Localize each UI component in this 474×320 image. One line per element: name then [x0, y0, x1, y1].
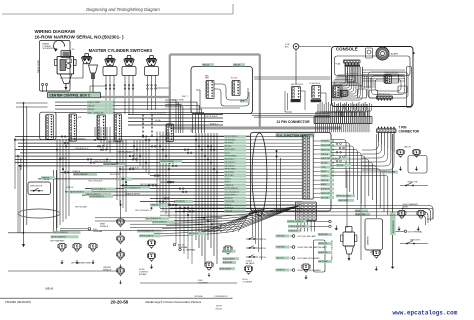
- latch solenoid L2: [414, 150, 419, 155]
- svg-text:T BROWN: T BROWN: [276, 236, 285, 238]
- white grommet chip: [381, 171, 398, 174]
- svg-text:www.epcatalogs.com: www.epcatalogs.com: [393, 310, 458, 317]
- svg-text:BLK: BLK: [191, 129, 193, 132]
- svg-text:WIRE: WIRE: [403, 207, 409, 209]
- left marker solenoid 1: [59, 244, 65, 249]
- svg-text:ORANGE-WHITE W: ORANGE-WHITE W: [69, 191, 85, 194]
- junction box bottom connector grid: [296, 202, 317, 221]
- svg-text:SWITCH B W: SWITCH B W: [30, 185, 42, 187]
- relay K1: [97, 115, 106, 139]
- svg-text:WHITE-PURPLE 2: WHITE-PURPLE 2: [225, 136, 238, 138]
- svg-text:WHITE-CREAM T: WHITE-CREAM T: [118, 150, 134, 153]
- svg-text:WHITE-GROMM: WHITE-GROMM: [382, 172, 396, 174]
- svg-text:CYLINDER: CYLINDER: [243, 282, 253, 284]
- svg-text:TURQUOISE: TURQUOISE: [225, 201, 234, 203]
- svg-text:091197: 091197: [216, 306, 222, 308]
- svg-text:ORANGE-WHITE: ORANGE-WHITE: [125, 193, 141, 196]
- master cylinder switch S4: [147, 58, 156, 60]
- svg-text:WHITE-GREEN W: WHITE-GREEN W: [225, 188, 239, 190]
- svg-text:MARKER: MARKER: [367, 236, 370, 245]
- chip RED-W top right: [233, 63, 245, 66]
- console module B: [358, 89, 367, 98]
- svg-text:WHITE-GREEN T: WHITE-GREEN T: [108, 142, 124, 144]
- svg-text:TEE BELT: TEE BELT: [318, 247, 328, 249]
- switch cross wires: [90, 86, 106, 92]
- svg-text:WHITE 2: WHITE 2: [225, 178, 232, 180]
- svg-text:VAC MONITOR: VAC MONITOR: [346, 73, 359, 76]
- tail lamp group: [276, 235, 290, 238]
- svg-text:RED-W: RED-W: [335, 159, 341, 161]
- vertical bundle D: [56, 139, 58, 228]
- svg-text:Diagnosing and Testing/Wiring: Diagnosing and Testing/Wiring Diagram: [86, 7, 160, 12]
- console enclosure: [332, 47, 414, 107]
- vertical bundle E: [116, 140, 118, 200]
- svg-text:SWITCH: SWITCH: [259, 239, 267, 241]
- booster chip strip: [390, 213, 396, 236]
- SMV module enclosure: [191, 67, 253, 114]
- svg-text:SWITCH: SWITCH: [259, 257, 267, 259]
- junction box cable loop: [252, 133, 267, 216]
- svg-text:BROWN: BROWN: [321, 162, 328, 164]
- footer rule: [0, 297, 233, 299]
- vertical bundle A: [94, 127, 96, 137]
- junction dots: [23, 139, 25, 141]
- svg-text:PLAN: PLAN: [336, 63, 341, 66]
- raise/lower solenoid enclosure: [40, 41, 71, 92]
- svg-text:WHITE-YEL 2: WHITE-YEL 2: [225, 159, 235, 161]
- svg-text:BROWN-W: BROWN-W: [321, 189, 330, 191]
- console riser wires: [361, 74, 363, 88]
- cyl solenoid 1: [149, 240, 155, 245]
- svg-text:MAIN MODULE: MAIN MODULE: [378, 93, 391, 96]
- chips mid cluster: [222, 250, 236, 253]
- switch B W box left: [28, 182, 51, 195]
- bottom band rows: [95, 217, 222, 219]
- right lamp chips column: [318, 233, 332, 236]
- svg-text:WHITE-GRAY W: WHITE-GRAY W: [140, 235, 154, 238]
- master cylinder switch S1: [82, 56, 91, 58]
- SMV routing loops: [214, 84, 248, 100]
- 21 pin connector leads: [315, 112, 317, 117]
- master cylinder switch S3: [125, 58, 134, 60]
- svg-text:RED-W: RED-W: [225, 152, 231, 154]
- left edge verticals: [14, 138, 16, 189]
- svg-text:PN=112: PN=112: [216, 308, 222, 310]
- right vertical wire: [392, 134, 394, 264]
- switch S1 funnel: [89, 65, 98, 73]
- left band chips: [41, 176, 55, 179]
- svg-text:WHITE: WHITE: [321, 171, 327, 173]
- svg-text:SOLENOID: SOLENOID: [43, 48, 55, 50]
- junction bottom verticals: [252, 211, 254, 236]
- vertical bundle B: [133, 140, 135, 160]
- svg-text:YELLOW-BLACK W: YELLOW-BLACK W: [138, 230, 154, 233]
- connector X2: [69, 114, 77, 141]
- svg-text:LEFT MARKER WIRE: LEFT MARKER WIRE: [71, 262, 91, 265]
- console drop wires: [316, 104, 338, 117]
- solenoid funnel: [60, 74, 72, 84]
- svg-text:RED-W: RED-W: [234, 64, 241, 66]
- svg-text:BRN-W: BRN-W: [88, 109, 95, 111]
- svg-text:SEED MODULE: SEED MODULE: [358, 87, 371, 89]
- alarm: [376, 47, 389, 60]
- solenoid terminals: [42, 83, 44, 85]
- right vertical wire 2: [375, 134, 377, 218]
- svg-text:WHITE-ORANGE 2: WHITE-ORANGE 2: [70, 137, 87, 140]
- console inner panel: [335, 56, 411, 76]
- switch rows right of cluster: [246, 238, 258, 240]
- console wire loops: [368, 72, 408, 98]
- junction box outline: [251, 132, 332, 211]
- svg-text:WHITE-PINK: WHITE-PINK: [225, 172, 235, 174]
- svg-text:TM1366AN: TM1366AN: [194, 295, 203, 298]
- center spindle column: [118, 219, 123, 224]
- svg-text:WHITE-GREEN W: WHITE-GREEN W: [53, 232, 68, 234]
- svg-text:BA: VALVE: BA: VALVE: [246, 262, 256, 265]
- svg-text:BLACK: BLACK: [321, 183, 327, 186]
- svg-text:RED-W: RED-W: [176, 104, 183, 106]
- svg-text:SCR TERMINAL: SCR TERMINAL: [408, 230, 424, 233]
- 7 PIN CONNECTOR pins: [378, 126, 380, 128]
- 7 pin leads: [378, 132, 380, 142]
- svg-text:LEFT LAMP: LEFT LAMP: [319, 260, 329, 263]
- purple chips: [287, 220, 307, 223]
- relay loop wires: [285, 91, 292, 112]
- junction box pin strip: [302, 135, 313, 199]
- svg-text:WIRING DIAGRAM: WIRING DIAGRAM: [35, 29, 75, 34]
- wire rows control box: [128, 114, 223, 116]
- solenoid valve V1: [61, 51, 71, 58]
- inline connector bullets: [61, 136, 63, 138]
- spindle feed wires: [120, 200, 122, 219]
- svg-text:WHITE-ORANGE T: WHITE-ORANGE T: [74, 173, 89, 176]
- switch S1 wires: [60, 64, 83, 79]
- svg-text:YELLOW-BLACK W: YELLOW-BLACK W: [125, 186, 141, 189]
- svg-text:10 GA: 10 GA: [155, 119, 161, 122]
- junction box right chips column: [321, 140, 335, 143]
- shut off solenoid valve: [343, 232, 355, 246]
- console small part c: [398, 86, 407, 93]
- svg-text:RAISE WIRE: RAISE WIRE: [37, 59, 40, 72]
- svg-text:WHT - BLACK WI: WHT - BLACK WI: [88, 111, 104, 114]
- svg-text:WHITE-YEL: WHITE-YEL: [321, 149, 330, 151]
- svg-text:BLACK-W: BLACK-W: [130, 167, 139, 170]
- svg-text:WHITE-BLUE 2: WHITE-BLUE 2: [225, 162, 236, 164]
- svg-text:TM1366 (06JAN97): TM1366 (06JAN97): [5, 300, 31, 304]
- B+ wire to console: [299, 46, 332, 48]
- svg-text:WHITE-B: WHITE-B: [321, 180, 329, 182]
- svg-text:SWITCH B: SWITCH B: [408, 182, 418, 184]
- svg-text:ORANGE-W: ORANGE-W: [151, 204, 161, 207]
- svg-text:TRANS CONTROL: TRANS CONTROL: [384, 71, 399, 74]
- svg-text:ALARM: ALARM: [391, 53, 398, 56]
- master cylinder switch S2: [106, 58, 115, 60]
- svg-text:RIGHT LAMP (W) FLASHER: RIGHT LAMP (W) FLASHER: [298, 269, 322, 272]
- right marker enclosure: [365, 219, 383, 250]
- svg-text:WHITE-ORANGE: WHITE-ORANGE: [161, 160, 175, 163]
- svg-text:PURPLE- GREEN W: PURPLE- GREEN W: [288, 221, 304, 223]
- solenoid return arrow: [54, 40, 65, 50]
- svg-text:LEFT LAMP (W) FLASHER: LEFT LAMP (W) FLASHER: [298, 257, 321, 260]
- right field chips: [336, 195, 355, 198]
- svg-text:PURPLE: PURPLE: [321, 176, 329, 178]
- scr terminal left: [88, 228, 91, 231]
- left wire arrow: [22, 244, 25, 247]
- wires console to 21pin: [335, 112, 337, 117]
- console small part b: [340, 90, 348, 96]
- bullet column pair A: [142, 115, 144, 117]
- right marker solenoid 3: [373, 250, 379, 255]
- svg-text:T BROWN: T BROWN: [276, 247, 285, 249]
- bottom long rows: [160, 206, 433, 220]
- svg-text:WHITE-GRAY: WHITE-GRAY: [75, 206, 88, 209]
- top bus horizontals: [254, 76, 331, 78]
- chip BLK: [240, 100, 248, 103]
- console cross wires: [362, 69, 405, 71]
- right band bullets: [336, 143, 338, 145]
- svg-text:WHITE-GREEN W: WHITE-GREEN W: [153, 222, 167, 224]
- left main black wire: [23, 103, 25, 233]
- svg-text:BLACK-WH: BLACK-WH: [223, 261, 233, 264]
- speed sensor: [366, 48, 373, 58]
- svg-text:YELLOW-BLACK: YELLOW-BLACK: [88, 180, 103, 183]
- connector X1: [40, 112, 56, 139]
- svg-text:YELLOW-BLACK W: YELLOW-BLACK W: [146, 217, 162, 220]
- bottom long rows 2: [8, 270, 121, 272]
- console connector J2: [377, 96, 393, 99]
- SMV module connector B: [232, 81, 240, 96]
- SMV module connector A: [206, 81, 214, 99]
- svg-text:BLK-W, BLACK W: BLK-W, BLACK W: [92, 188, 106, 191]
- shut off ground: [335, 226, 337, 229]
- 21 pin connector bar: [314, 117, 372, 124]
- vertical bundle F: [156, 132, 158, 206]
- svg-text:PL MODULE: PL MODULE: [310, 83, 321, 85]
- left marker solenoid 2: [74, 244, 80, 249]
- svg-text:YELLOW: YELLOW: [321, 197, 328, 199]
- console small part a: [347, 76, 355, 82]
- 7pin drop curves: [362, 132, 379, 150]
- svg-text:WHITE-GREEN W: WHITE-GREEN W: [95, 161, 111, 163]
- svg-text:BLACK-WH: BLACK-WH: [319, 233, 329, 236]
- svg-text:LATCH: LATCH: [404, 145, 411, 148]
- SMV drop bundle: [192, 114, 194, 134]
- svg-text:ORANGE: ORANGE: [72, 170, 81, 173]
- tee belt box: [314, 240, 326, 272]
- svg-text:BROWN-W: BROWN-W: [176, 201, 185, 203]
- svg-text:BRN-W: BRN-W: [60, 158, 67, 160]
- svg-text:WHITE-BLACK: WHITE-BLACK: [205, 115, 219, 118]
- relay module M1: [292, 87, 301, 100]
- svg-text:CENTER CONTROL BOX C: CENTER CONTROL BOX C: [50, 94, 91, 98]
- svg-text:CONSOLE: CONSOLE: [336, 47, 358, 52]
- svg-text:RED-W BLACK WI: RED-W BLACK WI: [150, 112, 166, 115]
- vertical bundle C: [195, 133, 197, 240]
- svg-text:WHITE-GRY: WHITE-GRY: [321, 193, 331, 195]
- stepped wires control box right: [165, 100, 176, 133]
- console drop bundle: [340, 67, 346, 84]
- svg-text:SWITCH: SWITCH: [259, 248, 267, 250]
- console inner border right: [407, 67, 412, 108]
- bus drop bundle: [317, 104, 319, 117]
- console connector J1: [344, 60, 361, 63]
- junction box left pin labels: [224, 135, 246, 138]
- svg-text:20-20-58: 20-20-58: [111, 300, 129, 305]
- junction bottom fan left: [178, 206, 299, 218]
- svg-text:WHITE-GREEN 1: WHITE-GREEN 1: [225, 156, 238, 158]
- junction box interior verticals: [276, 151, 278, 211]
- svg-text:WHT 2: WHT 2: [182, 96, 188, 98]
- svg-text:BLACK-WH: BLACK-WH: [319, 251, 329, 254]
- svg-text:BOOSTER W: BOOSTER W: [393, 221, 395, 233]
- svg-text:WHITE YEL: WHITE YEL: [319, 243, 328, 245]
- cable coil ellipse: [18, 209, 60, 218]
- svg-text:WHITE-A: WHITE-A: [321, 153, 329, 156]
- B+ wire down: [295, 49, 297, 84]
- svg-text:ROSTA W: ROSTA W: [321, 140, 329, 143]
- svg-text:RED-W: RED-W: [203, 64, 210, 66]
- connector X3: [114, 114, 122, 141]
- left marker solenoid 3: [90, 244, 96, 249]
- svg-text:LEFT (NO) TAIL LAMP: LEFT (NO) TAIL LAMP: [298, 235, 317, 238]
- bottom center solenoid: [303, 264, 309, 269]
- svg-text:WHITE-BRN 2: WHITE-BRN 2: [225, 165, 235, 167]
- relay module M2: [312, 86, 321, 99]
- page header rule: [2, 13, 233, 15]
- 21 pin drop wires: [315, 124, 317, 133]
- console module A: [384, 74, 399, 83]
- bottom diagonal fan: [238, 209, 252, 232]
- svg-text:BLACK 2: BLACK 2: [210, 123, 218, 126]
- svg-text:16-ROW NARROW SERIAL NO.(50230: 16-ROW NARROW SERIAL NO.(502301-: [35, 34, 122, 39]
- latch solenoid L1: [398, 150, 403, 155]
- cyl solenoid 2: [149, 253, 155, 258]
- svg-text:MASTER CYLINDER SWITCHES: MASTER CYLINDER SWITCHES: [89, 48, 153, 53]
- svg-text:CONNECTOR: CONNECTOR: [399, 129, 420, 133]
- svg-text:B+ TERMINAL: B+ TERMINAL: [183, 249, 195, 252]
- svg-text:YELLOW: YELLOW: [276, 258, 284, 260]
- svg-text:BROWN-W: BROWN-W: [225, 198, 234, 200]
- svg-text:WHITE-ORANGE T: WHITE-ORANGE T: [104, 163, 119, 166]
- CENTER CONTROL BOX title: [48, 92, 101, 98]
- svg-text:BLACK-WH: BLACK-WH: [356, 213, 366, 216]
- wire rows left field: [15, 136, 224, 138]
- junction dot bottom left: [23, 232, 25, 234]
- fold cylinder solenoid B: [246, 266, 252, 271]
- console fan wires: [338, 67, 345, 75]
- svg-text:GRAY-W: GRAY-W: [66, 186, 74, 189]
- console module C: [369, 90, 378, 98]
- right field staircase wires: [331, 140, 346, 189]
- svg-text:CONSERVATION: CONSERVATION: [214, 295, 228, 298]
- svg-text:BLACK-WHITE: BLACK-WHITE: [223, 257, 235, 260]
- left junction wires: [16, 102, 48, 104]
- svg-text:PURPLE-W: PURPLE-W: [289, 231, 298, 233]
- left verticals through coil: [52, 170, 54, 232]
- switch bundle connectors: [105, 84, 107, 86]
- chips white-green: [53, 231, 81, 234]
- chips above shutoff: [355, 210, 368, 213]
- chip RED-W top left: [202, 63, 214, 66]
- B+ terminal node: [293, 44, 299, 50]
- svg-text:WHITE-GR: WHITE-GR: [223, 251, 233, 253]
- svg-text:WHITE-GREEN W: WHITE-GREEN W: [51, 237, 66, 239]
- harness highlight path: [170, 53, 260, 55]
- tow solenoid mid: [225, 246, 231, 251]
- svg-text:GREEN W: GREEN W: [276, 270, 285, 272]
- svg-text:WHITE-GREEN W: WHITE-GREEN W: [90, 196, 104, 198]
- svg-text:ORN-BLACK W: ORN-BLACK W: [75, 147, 89, 150]
- svg-text:WHITE-GRN: WHITE-GRN: [321, 145, 332, 147]
- right long drops: [360, 176, 362, 260]
- right marker solenoid 2: [418, 211, 424, 216]
- connector X4: [166, 124, 174, 141]
- svg-text:21 PIN CONNECTOR: 21 PIN CONNECTOR: [277, 120, 311, 124]
- svg-text:PURPLE-WHITE BRN: PURPLE-WHITE BRN: [289, 226, 307, 228]
- junction grid drop wires: [297, 221, 299, 232]
- bottom verticals mid: [175, 206, 177, 245]
- scr terminal: [404, 230, 406, 232]
- right marker solenoid 1: [399, 211, 405, 216]
- svg-text:FLOOD: FLOOD: [231, 78, 238, 80]
- svg-text:RIGHT (RED) TAIL LAMP: RIGHT (RED) TAIL LAMP: [298, 246, 319, 249]
- svg-text:WHITE-ORN 2: WHITE-ORN 2: [225, 149, 236, 151]
- R.H. JUNCTION BOX title: [276, 132, 315, 137]
- latch box: [408, 156, 427, 174]
- mid bus horizontals: [250, 113, 330, 115]
- svg-text:WHITE-GR: WHITE-GR: [189, 233, 199, 235]
- svg-text:SIGNO-WHITE: SIGNO-WHITE: [220, 268, 232, 270]
- svg-text:BROWN W: BROWN W: [110, 174, 120, 176]
- svg-text:RD-W: RD-W: [356, 211, 361, 213]
- svg-text:YELLOW-BLACK W: YELLOW-BLACK W: [135, 209, 152, 212]
- svg-text:ORANGE: ORANGE: [42, 176, 51, 179]
- svg-text:BLACK WIRE: BLACK WIRE: [172, 99, 184, 102]
- svg-text:WHITE-YELLOW W: WHITE-YELLOW W: [337, 196, 352, 198]
- svg-text:SPINDLE: SPINDLE: [100, 226, 109, 228]
- svg-text:TURQ: TURQ: [321, 167, 326, 169]
- svg-text:BYPASS: BYPASS: [139, 273, 147, 276]
- svg-text:A39143: A39143: [45, 288, 54, 291]
- harness stub: [160, 135, 250, 137]
- svg-text:BLACK-WH: BLACK-WH: [321, 157, 331, 160]
- svg-text:BLACK WIRE: BLACK WIRE: [88, 101, 101, 104]
- svg-text:LEFT MARKER: LEFT MARKER: [50, 240, 65, 243]
- 7 pin connector bar: [377, 129, 397, 133]
- console module D: [332, 85, 342, 98]
- marker loop wire: [402, 209, 433, 220]
- svg-text:RED MODULE: RED MODULE: [291, 84, 304, 86]
- svg-text:WHITE-RED: WHITE-RED: [225, 143, 235, 145]
- svg-text:RED-W: RED-W: [88, 105, 95, 107]
- svg-text:WHITE-GREEN W: WHITE-GREEN W: [140, 184, 156, 186]
- switch wires down: [105, 76, 107, 115]
- fold cylinder solenoid A: [206, 262, 212, 267]
- chips yellow-black: [137, 230, 161, 233]
- svg-text:MaxEmerge® 2 Drawn Conservatio: MaxEmerge® 2 Drawn Conservation Planters: [146, 300, 202, 304]
- control box wire rows: [55, 102, 197, 114]
